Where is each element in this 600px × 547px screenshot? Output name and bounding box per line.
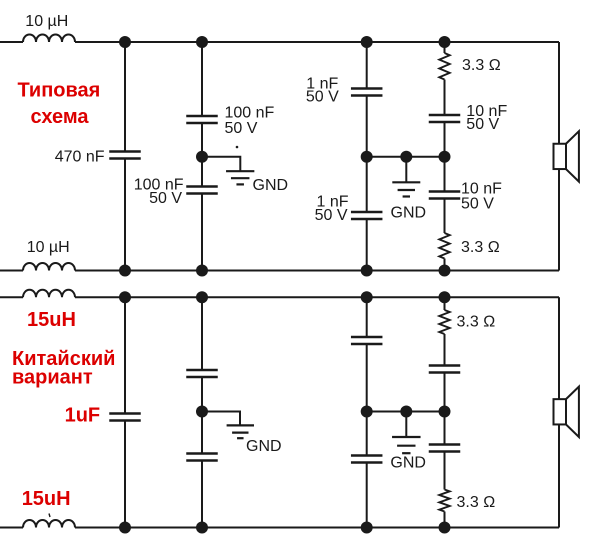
svg-text:схема: схема (31, 106, 90, 128)
svg-text:3.3 Ω: 3.3 Ω (457, 314, 496, 331)
svg-text:1uF: 1uF (65, 404, 101, 426)
svg-text:3.3 Ω: 3.3 Ω (462, 57, 501, 74)
svg-text:50 V: 50 V (225, 120, 258, 137)
svg-text:GND: GND (246, 438, 282, 455)
svg-text:50 V: 50 V (149, 190, 182, 207)
svg-text:15uH: 15uH (27, 309, 76, 331)
svg-text:50 V: 50 V (306, 89, 339, 106)
svg-text:50 V: 50 V (315, 207, 348, 224)
svg-text:10 µH: 10 µH (27, 239, 70, 256)
svg-text:3.3 Ω: 3.3 Ω (461, 239, 500, 256)
svg-text:GND: GND (253, 177, 289, 194)
svg-text:10 µH: 10 µH (25, 13, 68, 30)
svg-text:GND: GND (390, 454, 426, 471)
svg-text:470 nF: 470 nF (55, 149, 105, 166)
svg-text:50 V: 50 V (461, 196, 494, 213)
svg-text:вариант: вариант (12, 367, 93, 389)
svg-text:15uH: 15uH (22, 488, 71, 510)
svg-text:Типовая: Типовая (17, 80, 100, 102)
svg-text:3.3 Ω: 3.3 Ω (457, 494, 496, 511)
svg-text:GND: GND (391, 205, 427, 222)
svg-text:50 V: 50 V (466, 116, 499, 133)
svg-text:100 nF: 100 nF (225, 105, 275, 122)
